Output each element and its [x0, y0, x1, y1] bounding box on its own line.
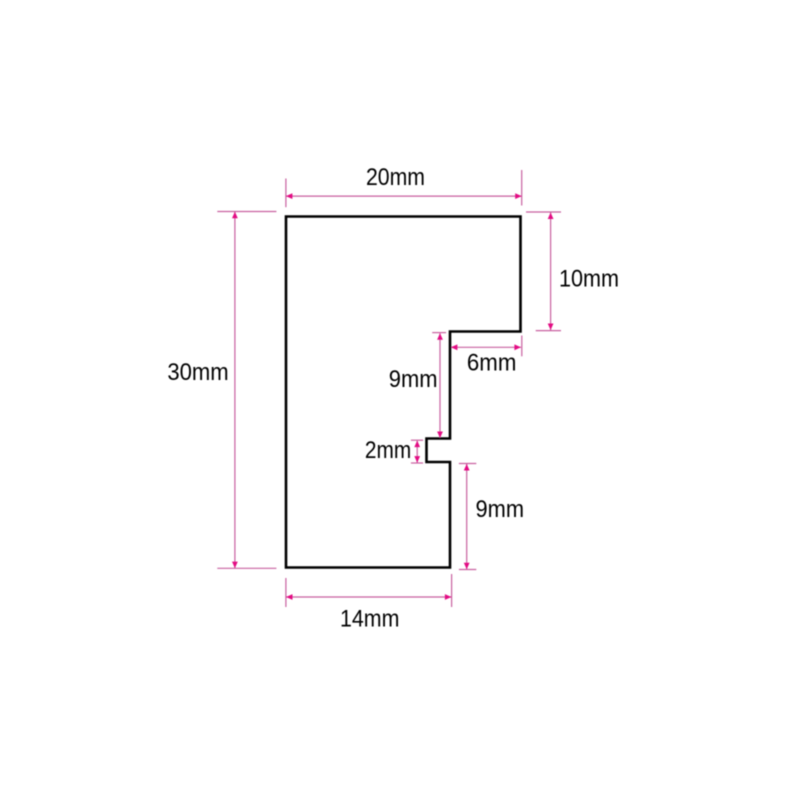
dimension 14mm arrow left: [286, 594, 293, 600]
dimension 14mm line: [286, 596, 451, 598]
dimension 9mm upper extension line top: [432, 332, 446, 334]
dimension 10mm arrow down: [548, 324, 554, 331]
dimension 20mm extension line left: [285, 179, 287, 208]
dimension 6mm arrow right: [514, 344, 521, 350]
dimension 10mm arrow up: [548, 213, 554, 220]
dimension 9mm upper arrow down: [437, 432, 443, 439]
dimension 9mm lower arrow up: [464, 464, 470, 471]
dimension 9mm upper line: [439, 333, 441, 438]
dimension 9mm upper arrow up: [437, 333, 443, 340]
svg-text:6mm: 6mm: [467, 349, 517, 376]
svg-text:9mm: 9mm: [476, 496, 525, 523]
dimension 9mm lower extension line bottom: [459, 569, 476, 571]
dimension 14mm extension line left: [285, 578, 287, 607]
dimension 10mm line: [550, 213, 552, 331]
dimension 30mm line: [234, 212, 236, 568]
profile outline: [286, 217, 521, 568]
dimension 20mm arrow right: [515, 193, 522, 199]
dimension 10mm extension line bottom: [536, 330, 561, 332]
svg-text:14mm: 14mm: [340, 606, 399, 633]
dimension 6mm arrow left: [451, 344, 458, 350]
dimension 9mm lower arrow down: [464, 563, 470, 570]
dimension 2mm extension line top: [411, 439, 423, 441]
dimension 2mm arrow up: [414, 441, 420, 448]
dimension 2mm line: [416, 441, 418, 463]
dimension 30mm arrow down: [232, 562, 238, 569]
dimension 6mm line: [451, 346, 521, 348]
dimension 14mm arrow right: [445, 594, 452, 600]
dimension 9mm lower extension line top: [459, 463, 476, 465]
dimension 9mm lower line: [466, 464, 468, 569]
dimension 6mm extension line right: [521, 336, 523, 357]
dimension 30mm extension line bottom: [217, 567, 276, 569]
svg-text:20mm: 20mm: [366, 164, 425, 191]
svg-text:10mm: 10mm: [559, 266, 619, 293]
dimension 2mm extension line bottom: [411, 462, 423, 464]
dimension 20mm extension line right: [521, 170, 523, 206]
dimension 20mm arrow left: [286, 193, 293, 199]
dimension 10mm extension line top: [526, 211, 561, 213]
dimension 2mm arrow down: [414, 456, 420, 463]
dimension 14mm extension line right: [451, 574, 453, 607]
dimension 30mm extension line top: [217, 211, 276, 213]
svg-text:30mm: 30mm: [167, 359, 228, 386]
svg-text:9mm: 9mm: [389, 366, 438, 393]
dimension 30mm arrow up: [232, 212, 238, 219]
dimension 20mm line: [286, 195, 522, 197]
svg-text:2mm: 2mm: [365, 437, 411, 464]
